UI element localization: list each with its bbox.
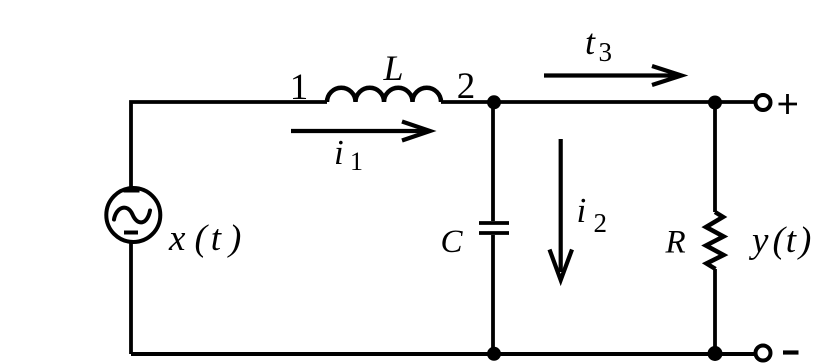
junction resistor bottom (708, 346, 723, 361)
capacitor C (479, 102, 509, 354)
svg-text:R: R (665, 225, 686, 261)
svg-text:x(t): x(t) (168, 218, 241, 259)
wire: source bottom to bottom-left corner (129, 242, 133, 354)
svg-text:y(t): y(t) (748, 220, 811, 261)
svg-text:t: t (585, 22, 596, 62)
junction node 2 (capacitor top) (487, 95, 501, 109)
current arrow t3 (544, 66, 682, 85)
minus sign (783, 350, 799, 354)
plus sign (779, 94, 798, 114)
svg-text:C: C (441, 224, 464, 260)
svg-text:1: 1 (350, 147, 363, 176)
svg-text:i: i (334, 133, 344, 172)
terminal circle + (top right) (756, 95, 771, 110)
wire: resistor branch to + terminal (715, 100, 754, 104)
terminal circle - (bottom right) (756, 346, 771, 361)
svg-text:1: 1 (290, 67, 309, 108)
svg-text:3: 3 (599, 37, 613, 67)
svg-text:i: i (577, 191, 587, 230)
junction capacitor bottom (487, 347, 501, 361)
wire: top-left from source top to inductor (node 1) (131, 102, 327, 188)
wire: node 2 to resistor branch (top) (494, 100, 715, 104)
wire: inductor to node 2 junction (441, 100, 494, 104)
wire: bottom rail (131, 352, 754, 356)
inductor L (327, 88, 441, 102)
current arrow i1 (291, 122, 430, 141)
junction resistor top (708, 96, 722, 110)
current arrow i2 (550, 139, 573, 280)
svg-text:L: L (382, 48, 403, 88)
voltage source x(t) (106, 188, 160, 242)
resistor R (706, 102, 724, 354)
svg-text:2: 2 (594, 208, 608, 238)
